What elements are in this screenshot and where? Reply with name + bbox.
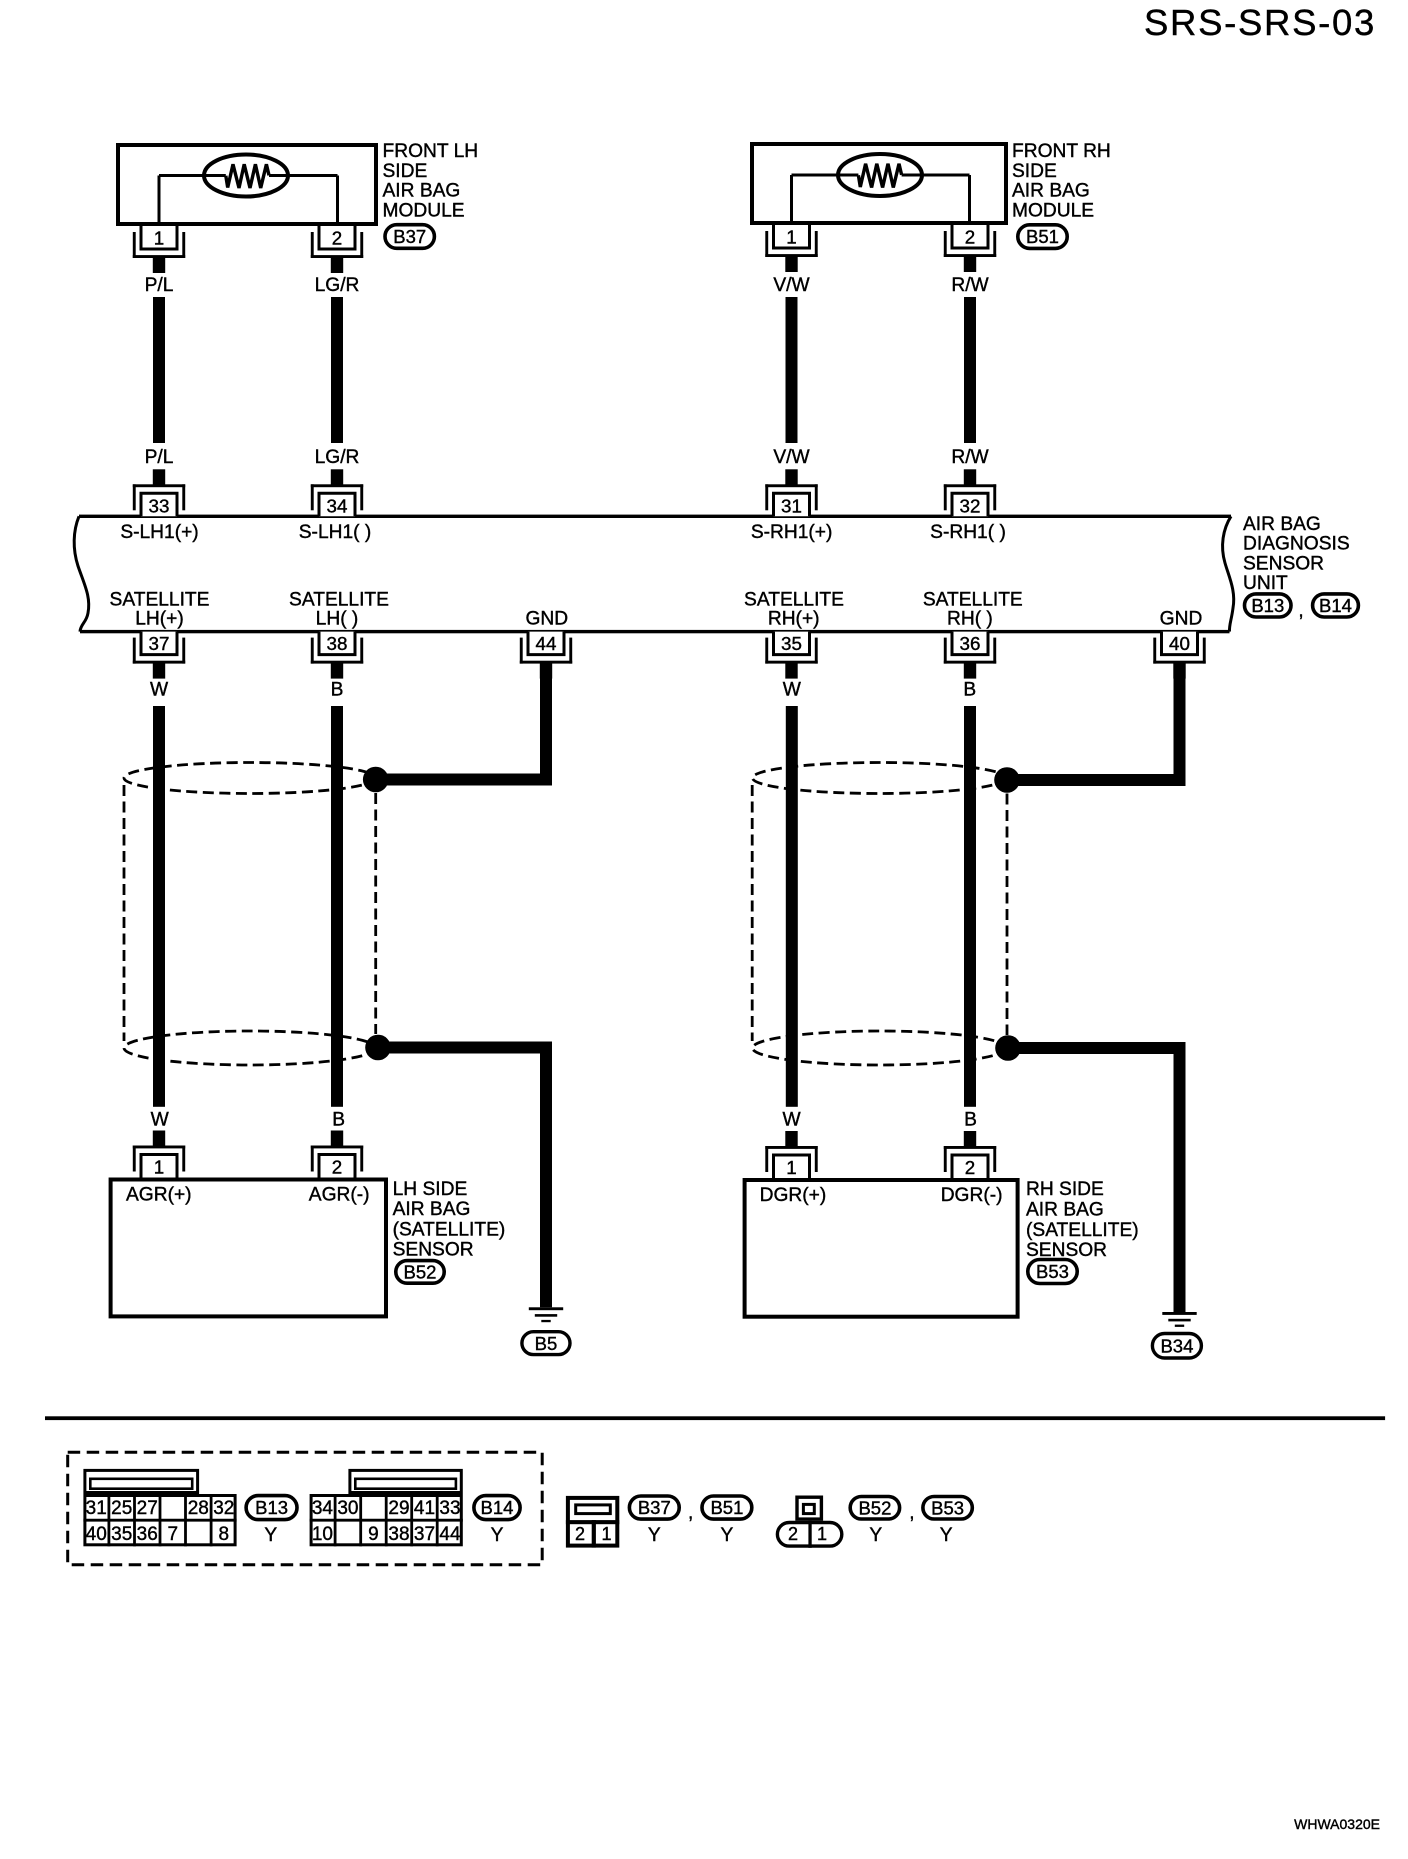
svg-text:B14: B14 — [481, 1497, 514, 1518]
svg-text:36: 36 — [137, 1524, 158, 1545]
svg-text:V/W: V/W — [773, 275, 810, 296]
svg-text:1: 1 — [601, 1524, 611, 1544]
svg-text:2: 2 — [332, 228, 342, 249]
svg-text:W: W — [151, 1110, 170, 1131]
svg-text:2: 2 — [965, 227, 975, 248]
svg-text:RH SIDE: RH SIDE — [1026, 1179, 1104, 1200]
svg-text:W: W — [783, 679, 802, 700]
svg-text:B: B — [963, 679, 976, 700]
svg-text:B13: B13 — [255, 1497, 288, 1518]
svg-text:SATELLITE: SATELLITE — [289, 589, 389, 610]
svg-text:B53: B53 — [931, 1497, 964, 1518]
svg-text:B5: B5 — [535, 1333, 558, 1354]
svg-text:Y: Y — [264, 1525, 277, 1546]
svg-text:,: , — [688, 1503, 693, 1524]
svg-text:28: 28 — [188, 1498, 209, 1519]
svg-text:(SATELLITE): (SATELLITE) — [1026, 1220, 1139, 1241]
svg-text:34: 34 — [312, 1498, 334, 1519]
svg-text:S-RH1(+): S-RH1(+) — [751, 522, 833, 543]
svg-text:2: 2 — [332, 1157, 342, 1178]
svg-text:FRONT LH: FRONT LH — [383, 141, 479, 162]
svg-text:Y: Y — [720, 1525, 733, 1546]
svg-text:P/L: P/L — [145, 447, 174, 468]
svg-text:29: 29 — [388, 1498, 409, 1519]
svg-text:27: 27 — [137, 1498, 158, 1519]
svg-text:7: 7 — [168, 1524, 179, 1545]
svg-text:UNIT: UNIT — [1243, 573, 1288, 594]
svg-text:1: 1 — [786, 227, 796, 248]
svg-text:Y: Y — [869, 1525, 882, 1546]
svg-text:SRS-SRS-03: SRS-SRS-03 — [1144, 2, 1376, 43]
svg-text:LG/R: LG/R — [315, 275, 360, 296]
svg-text:32: 32 — [960, 496, 981, 517]
svg-text:2: 2 — [575, 1524, 585, 1544]
svg-text:AIR BAG: AIR BAG — [1012, 181, 1090, 202]
svg-text:B13: B13 — [1251, 595, 1284, 616]
svg-text:30: 30 — [337, 1498, 358, 1519]
svg-text:AIR BAG: AIR BAG — [383, 181, 461, 202]
svg-text:44: 44 — [439, 1524, 461, 1545]
svg-text:40: 40 — [1169, 633, 1190, 654]
svg-text:38: 38 — [327, 633, 348, 654]
svg-text:SATELLITE: SATELLITE — [110, 589, 210, 610]
svg-text:41: 41 — [414, 1498, 435, 1519]
svg-text:SENSOR: SENSOR — [1243, 553, 1324, 574]
svg-text:10: 10 — [312, 1524, 333, 1545]
svg-text:AIR BAG: AIR BAG — [1026, 1199, 1104, 1220]
svg-text:LH( ): LH( ) — [316, 608, 359, 629]
svg-text:B37: B37 — [638, 1497, 671, 1518]
svg-text:RH(+): RH(+) — [768, 608, 820, 629]
svg-text:MODULE: MODULE — [1012, 200, 1094, 221]
svg-text:LH SIDE: LH SIDE — [393, 1179, 468, 1200]
svg-text:1: 1 — [154, 228, 164, 249]
svg-text:9: 9 — [368, 1524, 379, 1545]
svg-text:SATELLITE: SATELLITE — [923, 589, 1023, 610]
svg-text:RH( ): RH( ) — [947, 608, 993, 629]
svg-text:V/W: V/W — [773, 447, 810, 468]
svg-text:2: 2 — [965, 1157, 975, 1178]
svg-text:S-LH1(+): S-LH1(+) — [120, 522, 198, 543]
svg-text:32: 32 — [213, 1498, 234, 1519]
svg-text:40: 40 — [86, 1524, 107, 1545]
svg-text:,: , — [1298, 601, 1303, 622]
svg-text:SIDE: SIDE — [1012, 161, 1057, 182]
svg-text:38: 38 — [388, 1524, 409, 1545]
svg-text:Y: Y — [491, 1525, 504, 1546]
svg-text:R/W: R/W — [951, 275, 989, 296]
svg-text:W: W — [150, 679, 169, 700]
svg-text:1: 1 — [786, 1157, 796, 1178]
svg-text:DIAGNOSIS: DIAGNOSIS — [1243, 534, 1350, 555]
svg-text:33: 33 — [149, 496, 170, 517]
svg-text:B51: B51 — [710, 1497, 743, 1518]
svg-text:37: 37 — [149, 633, 170, 654]
svg-text:W: W — [782, 1110, 801, 1131]
svg-text:1: 1 — [817, 1524, 827, 1544]
svg-text:B: B — [964, 1110, 977, 1131]
svg-text:B: B — [331, 679, 344, 700]
svg-text:LG/R: LG/R — [315, 447, 360, 468]
svg-text:31: 31 — [781, 496, 802, 517]
svg-text:25: 25 — [111, 1498, 132, 1519]
svg-text:LH(+): LH(+) — [135, 608, 184, 629]
svg-text:GND: GND — [525, 608, 568, 629]
svg-text:SIDE: SIDE — [383, 161, 428, 182]
svg-text:B34: B34 — [1160, 1335, 1193, 1356]
svg-text:31: 31 — [86, 1498, 107, 1519]
svg-text:8: 8 — [219, 1524, 230, 1545]
svg-text:SENSOR: SENSOR — [393, 1240, 474, 1261]
svg-text:WHWA0320E: WHWA0320E — [1294, 1816, 1380, 1832]
svg-text:B52: B52 — [858, 1497, 891, 1518]
svg-text:FRONT RH: FRONT RH — [1012, 141, 1111, 162]
svg-text:33: 33 — [439, 1498, 460, 1519]
svg-text:1: 1 — [154, 1157, 164, 1178]
svg-text:(SATELLITE): (SATELLITE) — [393, 1219, 506, 1240]
svg-text:SATELLITE: SATELLITE — [744, 589, 844, 610]
svg-text:Y: Y — [940, 1525, 953, 1546]
svg-text:B37: B37 — [393, 226, 426, 247]
svg-text:AGR(-): AGR(-) — [309, 1184, 370, 1205]
svg-text:S-RH1( ): S-RH1( ) — [930, 522, 1006, 543]
svg-text:P/L: P/L — [145, 275, 174, 296]
svg-text:35: 35 — [111, 1524, 132, 1545]
svg-text:MODULE: MODULE — [383, 200, 465, 221]
svg-text:GND: GND — [1160, 608, 1203, 629]
svg-text:B53: B53 — [1036, 1261, 1069, 1282]
svg-text:AIR BAG: AIR BAG — [1243, 514, 1321, 535]
svg-text:37: 37 — [414, 1524, 435, 1545]
svg-text:B52: B52 — [404, 1262, 437, 1283]
svg-text:B: B — [332, 1110, 345, 1131]
svg-text:R/W: R/W — [951, 447, 989, 468]
svg-text:AIR BAG: AIR BAG — [393, 1199, 471, 1220]
svg-text:36: 36 — [960, 633, 981, 654]
svg-text:AGR(+): AGR(+) — [126, 1184, 192, 1205]
svg-text:Y: Y — [648, 1525, 661, 1546]
svg-text:2: 2 — [788, 1524, 798, 1544]
svg-text:S-LH1( ): S-LH1( ) — [299, 522, 372, 543]
svg-text:DGR(+): DGR(+) — [760, 1185, 827, 1206]
svg-text:44: 44 — [536, 633, 557, 654]
svg-text:B51: B51 — [1026, 226, 1059, 247]
svg-text:DGR(-): DGR(-) — [941, 1185, 1003, 1206]
svg-text:B14: B14 — [1319, 595, 1352, 616]
svg-text:34: 34 — [327, 496, 348, 517]
svg-text:35: 35 — [781, 633, 802, 654]
svg-text:,: , — [909, 1503, 914, 1524]
